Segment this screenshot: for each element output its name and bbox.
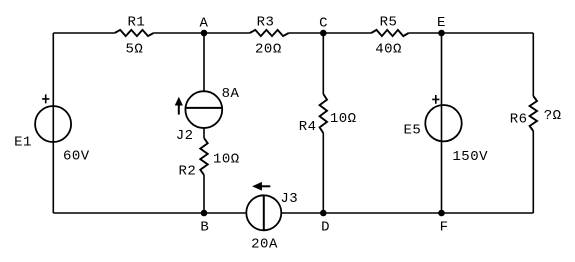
resistor R3 [250,30,289,36]
wire: R2 to B [203,175,205,213]
wire: E down to F (through E5) [441,33,443,213]
svg-text:E: E [437,15,446,31]
svg-text:60V: 60V [63,149,90,165]
svg-text:C: C [319,15,328,31]
svg-text:D: D [321,220,330,236]
wire: top rail left segment [53,32,114,34]
resistor R6 [530,96,537,131]
svg-text:F: F [440,220,449,236]
node E junction dot [438,30,445,37]
wire: bottom rail right of J3 [281,212,533,214]
node F junction dot [438,210,445,217]
svg-text:?Ω: ?Ω [544,108,562,124]
svg-text:R5: R5 [380,15,398,31]
svg-text:150V: 150V [452,149,488,165]
svg-text:40Ω: 40Ω [375,42,402,58]
svg-text:20A: 20A [251,236,278,252]
node C junction dot [320,30,327,37]
svg-text:10Ω: 10Ω [213,151,240,167]
arrow of J2 (points up) [178,104,180,114]
svg-text:10Ω: 10Ω [330,111,357,127]
svg-text:R3: R3 [257,15,275,31]
node A junction dot [201,30,208,37]
svg-text:B: B [200,220,209,236]
svg-text:R2: R2 [178,164,196,180]
svg-text:8A: 8A [222,86,240,102]
svg-text:R6: R6 [510,111,528,127]
wire: right branch bottom [532,131,534,213]
voltage source E5 [425,105,461,141]
wire: A down to J2 [203,33,205,91]
svg-text:A: A [200,15,209,31]
svg-text:E5: E5 [403,123,421,139]
resistor R1 [115,30,154,36]
wire: top rail R1 to A to R3 [154,32,250,34]
wire: top rail R3 to C to R5 [289,32,372,34]
wire: bottom rail left of J3 [53,212,246,214]
plus sign of E5 [432,95,439,104]
wire: R4 to D [322,133,324,213]
svg-text:J2: J2 [176,128,194,144]
resistor R5 [371,30,408,36]
node B junction dot [201,210,208,217]
wire: top rail R5 to E to top-right corner [409,32,534,34]
svg-text:5Ω: 5Ω [125,42,143,58]
svg-text:R1: R1 [127,15,145,31]
node D junction dot [320,210,327,217]
arrow of J3 (points left) [259,185,271,187]
current source J3 [246,195,281,230]
plus sign of E1 [42,94,49,103]
resistor R4 [320,94,327,133]
svg-text:J3: J3 [280,191,298,207]
resistor R2 [200,138,207,175]
svg-text:E1: E1 [14,134,32,150]
wire: right branch top [532,33,534,96]
svg-text:R4: R4 [299,119,317,135]
wire: C down to R4 [322,33,324,94]
svg-text:20Ω: 20Ω [255,42,282,58]
current source J2 [185,91,222,128]
wire: left branch (through E1) [52,33,54,213]
voltage source E1 [35,106,71,142]
wire: J2 to R2 [203,128,205,138]
